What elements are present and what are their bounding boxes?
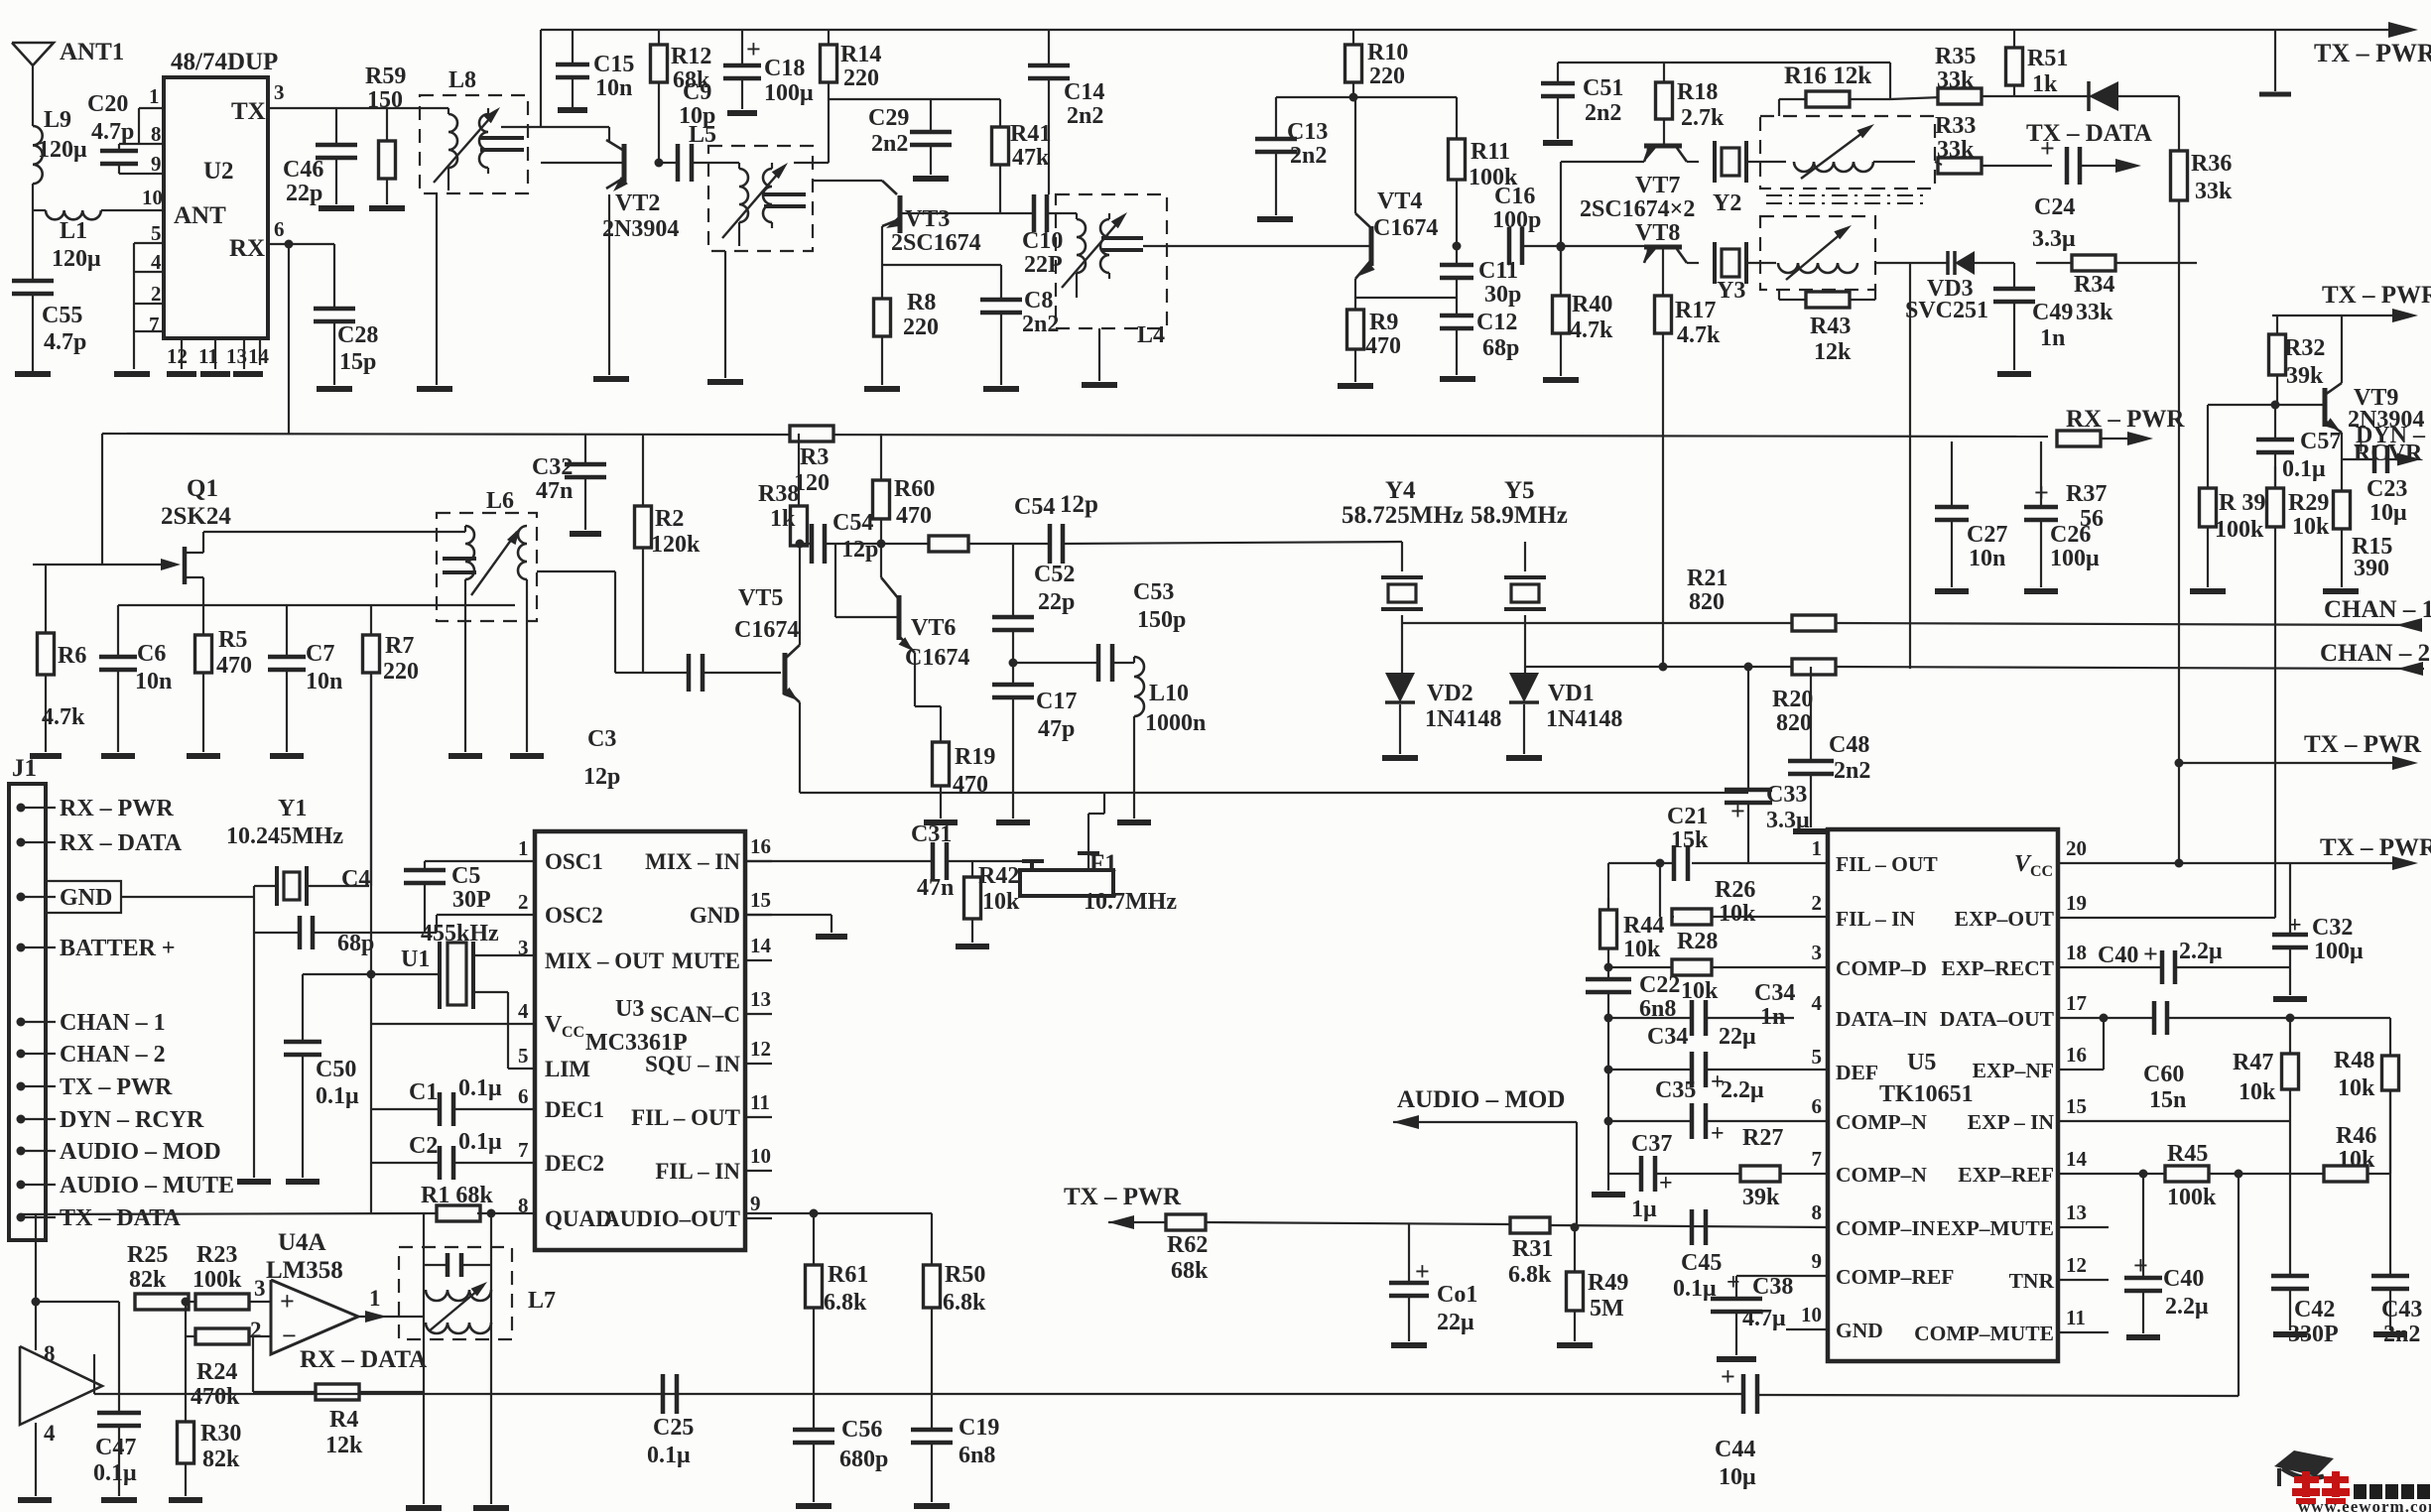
- svg-text:19: 19: [2066, 891, 2087, 915]
- transistor VT3 2SC1674: [882, 181, 897, 194]
- svg-text:33k: 33k: [2076, 300, 2113, 325]
- svg-text:VT7: VT7: [1635, 173, 1680, 198]
- svg-text:VT2: VT2: [615, 190, 660, 216]
- U2 pin 3 TX wire: [268, 107, 420, 109]
- svg-text:33k: 33k: [1937, 67, 1975, 93]
- svg-text:R45: R45: [2167, 1141, 2208, 1167]
- svg-text:MIX – IN: MIX – IN: [645, 849, 740, 874]
- svg-text:L5: L5: [689, 122, 716, 148]
- CHAN-2 wire with R20: [1525, 666, 1792, 668]
- svg-text:10k: 10k: [1681, 978, 1719, 1004]
- capacitor C54 first: [810, 524, 815, 564]
- svg-text:220: 220: [1369, 63, 1405, 89]
- svg-text:2: 2: [151, 282, 162, 306]
- svg-text:C32: C32: [532, 454, 573, 480]
- svg-text:8: 8: [518, 1194, 529, 1217]
- svg-text:2.2μ: 2.2μ: [2165, 1294, 2209, 1320]
- svg-text:10k: 10k: [1719, 901, 1756, 927]
- svg-text:100μ: 100μ: [2050, 546, 2100, 571]
- L4 cap: [1101, 236, 1143, 240]
- RX-PWR line: [102, 434, 2048, 437]
- resistor R23: [195, 1294, 249, 1310]
- svg-text:RX – PWR: RX – PWR: [2066, 406, 2185, 433]
- L5 primary coil: [708, 162, 739, 164]
- svg-text:C1: C1: [409, 1079, 438, 1105]
- wire R6 to gate: [46, 564, 102, 566]
- VT6 emitter to R19: [914, 653, 916, 706]
- inductor L1: [33, 209, 46, 211]
- junction R12 base VT2: [655, 159, 664, 168]
- capacitor C19: [931, 1394, 933, 1430]
- svg-text:30p: 30p: [1484, 282, 1521, 308]
- capacitor C18 electrolytic: [741, 30, 743, 65]
- svg-text:220: 220: [843, 65, 879, 91]
- capacitor C22: [1586, 977, 1631, 982]
- capacitor C12: [1440, 314, 1473, 318]
- capacitor C34 22u: [1608, 1069, 1692, 1071]
- svg-text:R24: R24: [196, 1359, 237, 1385]
- svg-text:R33: R33: [1935, 113, 1976, 139]
- L7 cap: [446, 1253, 450, 1277]
- wire L7 left vertical: [423, 1213, 425, 1504]
- capacitor C42: [2271, 1274, 2309, 1279]
- svg-text:R35: R35: [1935, 44, 1976, 69]
- svg-text:R5: R5: [218, 627, 247, 653]
- U2 bottom pins 12 11 13 14: [181, 338, 183, 369]
- svg-text:U5: U5: [1907, 1050, 1936, 1075]
- ground for VT2 emitter: [593, 376, 629, 382]
- capacitor C47: [118, 1302, 120, 1413]
- svg-text:C19: C19: [959, 1415, 999, 1441]
- svg-text:1n: 1n: [1760, 1004, 1785, 1030]
- ground for C19: [914, 1503, 950, 1509]
- svg-text:TX – PWR: TX – PWR: [60, 1074, 173, 1100]
- transistor VT4 C1674: [1354, 97, 1356, 213]
- svg-text:10.7MHz: 10.7MHz: [1084, 889, 1177, 915]
- capacitor C25: [661, 1374, 666, 1414]
- wire VT9 emitter node: [2341, 433, 2343, 459]
- svg-text:6: 6: [518, 1084, 529, 1108]
- svg-text:R61: R61: [828, 1262, 868, 1288]
- wire L4 out to VT4 base: [1143, 245, 1371, 247]
- svg-text:+: +: [2133, 1251, 2148, 1280]
- wire R14 bottom rail: [830, 98, 1000, 100]
- U2 pin 9: [119, 173, 164, 175]
- svg-text:1000n: 1000n: [1145, 710, 1206, 736]
- svg-text:4: 4: [518, 999, 529, 1023]
- svg-text:4.7p: 4.7p: [44, 329, 86, 355]
- ground for C18: [727, 110, 757, 116]
- svg-text:RX – DATA: RX – DATA: [60, 830, 183, 856]
- svg-text:2n2: 2n2: [1585, 100, 1621, 126]
- wire pin4 row: [371, 1023, 535, 1025]
- svg-text:R10: R10: [1367, 40, 1408, 65]
- svg-text:+: +: [2354, 432, 2368, 460]
- svg-text:6.8k: 6.8k: [1508, 1262, 1552, 1288]
- svg-text:8: 8: [1812, 1200, 1823, 1224]
- svg-text:Y1: Y1: [278, 796, 307, 821]
- svg-text:22p: 22p: [1038, 589, 1075, 615]
- svg-text:EXP–NF: EXP–NF: [1973, 1059, 2054, 1082]
- svg-text:1n: 1n: [2040, 325, 2065, 351]
- capacitor C54 second: [1048, 524, 1053, 564]
- svg-text:13: 13: [750, 987, 771, 1011]
- capacitor C28: [333, 244, 335, 309]
- svg-text:+: +: [2288, 913, 2302, 939]
- VT5 emitter down: [799, 702, 801, 793]
- svg-text:L6: L6: [486, 488, 514, 514]
- wire Y3 into filter box: [1746, 262, 1776, 264]
- L6 secondary coil: [518, 526, 527, 579]
- svg-text:10n: 10n: [1969, 546, 2005, 571]
- svg-text:Y2: Y2: [1713, 190, 1741, 216]
- svg-text:4.7μ: 4.7μ: [1742, 1306, 1786, 1331]
- svg-text:C34: C34: [1754, 980, 1795, 1006]
- ground for C26: [2024, 588, 2058, 594]
- svg-text:GND: GND: [60, 885, 112, 911]
- svg-text:VD1: VD1: [1548, 681, 1595, 706]
- svg-text:2: 2: [1812, 891, 1823, 915]
- varactor VD3: [1875, 262, 1948, 264]
- capacitor C8: [1000, 265, 1002, 300]
- capacitor C21: [1672, 845, 1677, 881]
- wire C7 R7 node: [287, 604, 515, 606]
- svg-text:R38: R38: [758, 481, 799, 507]
- TX-PWR mid line: [2272, 315, 2406, 316]
- svg-text:6.8k: 6.8k: [943, 1290, 986, 1316]
- capacitor C32 100u electrolytic: [2289, 863, 2291, 935]
- transformer L4 dashed box: [1056, 194, 1167, 328]
- wire VT4 emitter: [1354, 279, 1356, 306]
- ground for C47: [101, 1497, 137, 1503]
- capacitor C17: [1012, 663, 1014, 685]
- svg-text:VT5: VT5: [738, 585, 783, 611]
- resistor R12: [658, 30, 660, 45]
- resistor R9: [1354, 306, 1356, 310]
- ground for C42: [2273, 1331, 2307, 1337]
- svg-text:COMP–N: COMP–N: [1836, 1163, 1927, 1187]
- svg-text:10k: 10k: [2338, 1075, 2375, 1101]
- ground under L4: [1082, 382, 1117, 388]
- svg-text:120k: 120k: [651, 532, 701, 558]
- capacitor C38: [1736, 1275, 1828, 1277]
- resistor R37 on RX-PWR line: [2057, 431, 2101, 446]
- svg-text:22p: 22p: [286, 181, 322, 206]
- svg-text:6n8: 6n8: [959, 1443, 995, 1468]
- svg-text:150: 150: [367, 87, 403, 113]
- svg-text:39k: 39k: [1742, 1185, 1780, 1210]
- capacitor C26 electrolytic: [2040, 441, 2042, 507]
- svg-text:Y4: Y4: [1385, 477, 1416, 504]
- svg-text:7: 7: [149, 313, 160, 336]
- svg-text:EXP–MUTE: EXP–MUTE: [1937, 1216, 2054, 1240]
- opamp other half triangle: [20, 1346, 102, 1425]
- svg-text:0.1μ: 0.1μ: [458, 1075, 502, 1101]
- svg-text:RX – DATA: RX – DATA: [300, 1346, 427, 1373]
- capacitor C45 on pin8 wire: [1690, 1209, 1695, 1245]
- resistor R47: [2289, 1018, 2291, 1054]
- ground for C29: [913, 176, 949, 182]
- VT5 collector node: [799, 544, 801, 645]
- resistor R4 on RX-DATA wire: [316, 1384, 359, 1400]
- svg-text:L9: L9: [44, 107, 71, 133]
- J1 pin CHAN – 1: [17, 1018, 26, 1027]
- ground for R6: [30, 753, 62, 759]
- svg-text:15k: 15k: [1671, 827, 1709, 853]
- upper filter arrow: [1801, 127, 1870, 179]
- svg-text:0.1μ: 0.1μ: [2282, 456, 2326, 482]
- ground under L5: [707, 379, 743, 385]
- bottom long rail: [94, 1393, 1743, 1395]
- svg-text:1: 1: [149, 84, 160, 108]
- wire R11 top rail: [1355, 96, 1457, 98]
- U5 pin12 stub: [2058, 1279, 2109, 1281]
- svg-text:R29: R29: [2288, 490, 2329, 516]
- CHAN-1 wire with R21: [1402, 622, 1792, 624]
- svg-text:12p: 12p: [583, 764, 620, 790]
- svg-text:C4: C4: [341, 866, 370, 892]
- svg-text:R30: R30: [200, 1421, 241, 1447]
- wire Vcc vertical right: [2178, 200, 2180, 263]
- resistor R30: [185, 1336, 187, 1419]
- wire VT5 out rail: [800, 543, 812, 545]
- resistor R51: [2013, 30, 2015, 48]
- ground for C7: [270, 753, 304, 759]
- L7 coil upper: [426, 1290, 491, 1301]
- ground for R5: [187, 753, 220, 759]
- svg-text:12: 12: [750, 1037, 771, 1061]
- svg-text:C12: C12: [1476, 310, 1517, 335]
- wire R29 to EXP-OUT pin19: [2274, 527, 2276, 918]
- resistor R43: [1806, 292, 1850, 308]
- ground for C32 100u: [2273, 996, 2307, 1002]
- svg-text:RX: RX: [229, 235, 265, 262]
- svg-text:L7: L7: [528, 1288, 556, 1314]
- resistor R18: [1663, 63, 1665, 82]
- resistor R8: [881, 265, 883, 299]
- svg-text:470k: 470k: [191, 1384, 240, 1410]
- transistor VT2 2N3904: [608, 127, 610, 142]
- core dash-dot lines: [1766, 194, 1929, 196]
- svg-text:TNR: TNR: [2009, 1269, 2055, 1293]
- svg-text:3: 3: [518, 936, 529, 959]
- svg-text:220: 220: [903, 315, 939, 340]
- inductor L10: [1112, 662, 1134, 664]
- svg-text:R42: R42: [978, 863, 1019, 889]
- svg-text:R36: R36: [2191, 151, 2232, 177]
- ground for R15: [2323, 588, 2359, 594]
- svg-text:DEC2: DEC2: [545, 1151, 604, 1176]
- svg-text:C43: C43: [2381, 1297, 2422, 1323]
- resistor R62: [1166, 1214, 1206, 1230]
- resistor R49: [1574, 1227, 1576, 1272]
- capacitor C9: [659, 162, 678, 164]
- IC U3 MC3361P box: [535, 831, 745, 1250]
- capacitor C51: [1557, 63, 1559, 83]
- svg-text:C20: C20: [87, 91, 128, 117]
- resistor R44: [1607, 898, 1609, 910]
- wire VT7 base column: [1560, 162, 1562, 296]
- svg-text:R19: R19: [955, 744, 995, 770]
- svg-text:C3: C3: [587, 726, 616, 752]
- capacitor C14: [1048, 30, 1050, 65]
- L5 arrow: [722, 167, 784, 238]
- AUDIO-MOD wire: [1393, 1115, 1419, 1129]
- svg-text:R17: R17: [1675, 298, 1716, 323]
- inductor L9: [33, 126, 43, 184]
- svg-text:R59: R59: [365, 63, 406, 89]
- U5 pin18 wire with C40: [2058, 966, 2162, 968]
- J1 pin TX – PWR: [17, 1082, 26, 1091]
- antenna ANT1: [12, 43, 54, 65]
- svg-text:16: 16: [2066, 1043, 2087, 1067]
- svg-text:10n: 10n: [306, 669, 342, 694]
- svg-text:470: 470: [896, 503, 932, 529]
- svg-text:U1: U1: [401, 946, 430, 972]
- ground for left column: [1592, 1192, 1625, 1197]
- svg-text:2n2: 2n2: [1067, 103, 1103, 129]
- svg-text:COMP–IN: COMP–IN: [1836, 1216, 1936, 1240]
- ground for C48: [1793, 828, 1829, 834]
- wire pin14 row down to C44 rail: [2235, 1170, 2243, 1179]
- svg-text:R20: R20: [1772, 687, 1813, 712]
- svg-text:AUDIO – MUTE: AUDIO – MUTE: [60, 1173, 234, 1198]
- svg-text:C44: C44: [1715, 1437, 1755, 1462]
- wire left column lower: [1607, 1018, 1609, 1174]
- resistor R38: [798, 434, 800, 506]
- svg-text:R48: R48: [2334, 1048, 2374, 1073]
- resistor R15: [2341, 459, 2343, 491]
- svg-text:C42: C42: [2294, 1297, 2335, 1323]
- L5 secondary coil: [763, 169, 772, 222]
- svg-text:1k: 1k: [770, 506, 796, 532]
- svg-text:15n: 15n: [2149, 1087, 2186, 1113]
- svg-text:R3: R3: [800, 444, 829, 470]
- svg-text:QUAD: QUAD: [545, 1206, 612, 1231]
- wire Y2 into filter box: [1746, 161, 1786, 163]
- U2 pin 1: [139, 107, 164, 109]
- svg-text:8: 8: [44, 1341, 56, 1366]
- resistor R2: [642, 434, 644, 506]
- svg-text:TX – PWR: TX – PWR: [1064, 1184, 1182, 1210]
- transformer L8 dashed box: [420, 95, 528, 193]
- svg-text:12k: 12k: [1814, 339, 1852, 365]
- svg-text:220: 220: [383, 659, 419, 685]
- wire L5 out to VT3 base: [813, 180, 882, 182]
- svg-text:AUDIO – MOD: AUDIO – MOD: [1397, 1086, 1565, 1113]
- capacitor C43: [2371, 1274, 2409, 1279]
- svg-text:13: 13: [226, 344, 247, 368]
- pin17 to pin16 jog: [2103, 1018, 2105, 1070]
- svg-text:0.1μ: 0.1μ: [1673, 1276, 1717, 1302]
- resistor R17: [1662, 249, 1664, 296]
- J1 pin TX – DATA: [17, 1213, 26, 1222]
- ground for Co1: [1391, 1342, 1427, 1348]
- resistor R61: [813, 1213, 815, 1265]
- svg-text:L1: L1: [60, 218, 87, 244]
- crystal Y3: [1713, 242, 1717, 284]
- ground for C55: [15, 371, 51, 377]
- IC U2 48/74DUP box: [164, 77, 268, 338]
- svg-text:R49: R49: [1588, 1270, 1628, 1296]
- svg-text:0.1μ: 0.1μ: [316, 1083, 359, 1109]
- ground for C15: [558, 107, 587, 113]
- transistor VT5 C1674: [783, 653, 788, 694]
- wire U2 left pins to ground: [133, 243, 135, 331]
- svg-text:100p: 100p: [1492, 207, 1541, 233]
- svg-text:R50: R50: [945, 1262, 985, 1288]
- svg-text:C29: C29: [868, 105, 909, 131]
- lower filter arrow: [1786, 228, 1848, 280]
- wire inverting feedback down: [252, 1336, 254, 1392]
- svg-text:C1674: C1674: [734, 617, 799, 643]
- ground for C27: [1935, 588, 1969, 594]
- svg-text:DEF: DEF: [1836, 1061, 1878, 1084]
- svg-text:C54: C54: [832, 510, 873, 536]
- L6 primary coil: [465, 526, 474, 579]
- svg-text:C50: C50: [316, 1057, 356, 1082]
- capacitor C7: [286, 605, 288, 657]
- svg-text:10μ: 10μ: [1719, 1464, 1756, 1490]
- capacitor C55: [12, 279, 54, 284]
- svg-text:4.7k: 4.7k: [1677, 322, 1721, 348]
- svg-text:9: 9: [151, 152, 162, 176]
- capacitor C33 electrolytic: [1747, 667, 1749, 790]
- svg-text:10k: 10k: [982, 889, 1020, 915]
- svg-text:EXP–RECT: EXP–RECT: [1942, 956, 2055, 980]
- svg-text:C6: C6: [137, 641, 166, 667]
- svg-text:1k: 1k: [2032, 71, 2058, 97]
- wire R1 row to R25: [36, 1301, 119, 1303]
- svg-text:100k: 100k: [2215, 517, 2264, 543]
- svg-text:C18: C18: [764, 56, 805, 81]
- ground for C4 rail: [237, 1179, 271, 1185]
- wire pin14 down to C40 bottom: [2142, 1174, 2144, 1278]
- L4 arrow: [1062, 216, 1123, 288]
- svg-text:COMP–N: COMP–N: [1836, 1110, 1927, 1134]
- svg-text:MUTE: MUTE: [672, 948, 740, 973]
- capacitor C35: [1608, 1120, 1692, 1122]
- svg-text:C33: C33: [1766, 782, 1807, 808]
- svg-text:C45: C45: [1681, 1250, 1722, 1276]
- svg-text:+: +: [1721, 1362, 1735, 1391]
- resistor R32: [2276, 315, 2278, 334]
- capacitor C10: [1032, 194, 1037, 232]
- svg-text:11: 11: [198, 344, 218, 368]
- svg-text:TX – PWR: TX – PWR: [2322, 282, 2431, 309]
- svg-text:R47: R47: [2233, 1050, 2273, 1075]
- transistor VT8: [1644, 245, 1682, 250]
- svg-text:DYN – RCYR: DYN – RCYR: [60, 1107, 204, 1133]
- svg-text:48/74DUP: 48/74DUP: [171, 49, 278, 75]
- svg-text:100k: 100k: [192, 1267, 242, 1293]
- GND outline box: [46, 881, 121, 913]
- svg-text:C37: C37: [1631, 1131, 1672, 1157]
- svg-text:C7: C7: [306, 641, 334, 667]
- svg-text:58.725MHz: 58.725MHz: [1342, 502, 1464, 529]
- svg-text:820: 820: [1776, 710, 1812, 736]
- IF rail wire y799: [800, 792, 1748, 794]
- svg-text:R16 12k: R16 12k: [1784, 63, 1871, 89]
- wire pin8 top: [35, 1213, 37, 1350]
- svg-text:SQU – IN: SQU – IN: [645, 1052, 740, 1076]
- svg-text:680p: 680p: [839, 1447, 888, 1472]
- resistor R28: [1608, 966, 1674, 968]
- svg-text:+: +: [1727, 1270, 1740, 1296]
- svg-text:VT4: VT4: [1377, 189, 1422, 214]
- svg-text:R11: R11: [1471, 139, 1510, 165]
- ground for R8: [864, 386, 900, 392]
